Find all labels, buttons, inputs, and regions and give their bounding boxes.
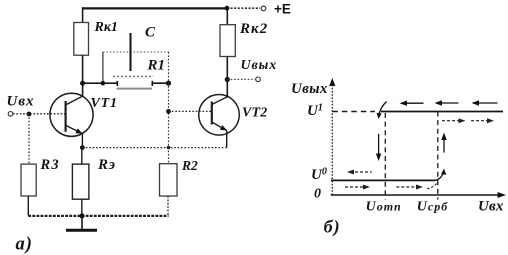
arrow up at Usrb	[441, 133, 446, 153]
wire node to R1 left lead	[83, 82, 118, 84]
resistor Rk1	[74, 23, 89, 56]
node emitter junction	[80, 145, 85, 150]
line Uotp vertical dashed	[384, 113, 386, 200]
wire Rk1 top lead	[82, 7, 84, 22]
wire bottom rail (dashed)	[28, 215, 168, 217]
line Usrb vertical dashed	[437, 112, 439, 200]
node VT1 collector junction	[80, 81, 85, 86]
wire emitter coupling (dotted)	[82, 147, 226, 149]
wire VT1 emitter down	[81, 134, 83, 148]
capacitor C plate	[130, 33, 132, 71]
wire input to VT1 base (dotted)	[13, 113, 66, 115]
svg-text:R3: R3	[40, 157, 60, 173]
svg-text:Uвх: Uвх	[7, 94, 35, 110]
wire VT2 base lead (dotted)	[169, 110, 212, 112]
terminal input Uvx	[8, 112, 13, 117]
wire VT2 emitter down	[226, 130, 228, 147]
svg-text:Uвых: Uвых	[241, 58, 278, 73]
arrow down at Uotp	[376, 134, 381, 161]
resistor R1 (horizontal)	[113, 76, 154, 88]
wire C branch horizontal (dotted)	[103, 51, 169, 53]
transistor VT2	[199, 95, 240, 136]
terminal +E	[261, 6, 266, 11]
svg-text:Uсрб: Uсрб	[417, 200, 448, 215]
arrow right dashed 1 below U0	[345, 185, 370, 190]
arrow right dashed 2 below U0	[396, 185, 423, 190]
line U0 solid	[331, 179, 436, 181]
line U1 dashed segment	[332, 111, 375, 113]
node junction on rail	[225, 6, 230, 11]
svg-text:Uвых: Uвых	[291, 81, 328, 97]
svg-text:0: 0	[314, 187, 321, 202]
wire Rk1 bottom lead to VT1 collector	[82, 55, 84, 96]
resistor Rk2	[220, 25, 235, 57]
arrow left 1 above U1	[400, 101, 424, 106]
node input/R3 junction	[27, 112, 32, 117]
arrow right dashed 2 below U1	[471, 118, 494, 123]
svg-text:Rэ: Rэ	[97, 157, 116, 173]
wire R1 right lead	[152, 82, 171, 84]
node ground junction	[79, 213, 84, 218]
wire C branch riser	[102, 52, 104, 83]
svg-text:VT2: VT2	[242, 105, 268, 120]
svg-text:U1: U1	[307, 102, 323, 119]
node VT2 base junction	[166, 109, 171, 114]
svg-text:C: C	[145, 24, 156, 40]
axis X	[331, 194, 503, 196]
wire top rail	[82, 7, 227, 9]
wire output (dotted)	[227, 78, 255, 80]
svg-text:Rк1: Rк1	[94, 20, 118, 35]
svg-text:Rк2: Rк2	[239, 21, 268, 37]
svg-text:U0: U0	[311, 167, 327, 184]
wire right vertical C/R1 to base to R2 (dotted)	[168, 52, 170, 164]
resistor Re	[72, 164, 89, 199]
hook transition down at Uotp	[377, 102, 387, 120]
node C branch junction	[101, 81, 106, 86]
wire R3 bottom lead	[27, 196, 29, 216]
arrow right dashed 1 below U1	[442, 118, 466, 123]
resistor R2	[160, 164, 178, 196]
transistor VT1	[50, 93, 93, 136]
svg-text:+E: +E	[274, 2, 291, 17]
node R1 right junction	[166, 81, 171, 86]
arrow left dashed above U0	[347, 170, 372, 175]
wire Rk2 bottom lead to VT2 collector	[226, 57, 228, 98]
wire Rk2 top lead	[226, 8, 228, 25]
svg-text:R2: R2	[181, 158, 198, 173]
wire R2 bottom lead (dotted)	[167, 196, 169, 216]
node output junction	[225, 77, 230, 82]
svg-text:VT1: VT1	[91, 96, 118, 111]
hook dashed below Usrb	[427, 184, 437, 189]
line U1 solid segment	[381, 111, 503, 113]
ground	[66, 216, 97, 230]
wire Re bottom lead	[81, 199, 83, 216]
wire emitter to Re	[81, 148, 83, 165]
svg-text:а): а)	[16, 235, 33, 255]
axis Y (dotted)	[331, 81, 333, 195]
arrow left 2 above U1	[435, 100, 459, 105]
resistor R3	[21, 164, 36, 196]
wire R3 top lead (dotted)	[28, 114, 30, 164]
wire rail to +E terminal (dotted)	[227, 7, 260, 9]
hook transition up at Usrb	[436, 169, 447, 181]
node crossing R2/emitter line	[167, 146, 171, 150]
svg-text:б): б)	[324, 217, 341, 238]
svg-text:Uвх: Uвх	[478, 199, 504, 215]
arrow left 3 above U1	[472, 100, 498, 105]
terminal Uvyh	[256, 77, 261, 82]
svg-text:Uотп: Uотп	[366, 200, 402, 215]
svg-text:R1: R1	[147, 58, 166, 74]
